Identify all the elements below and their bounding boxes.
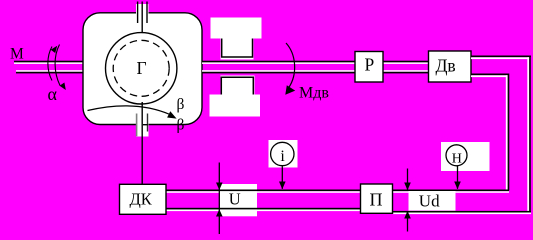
box Dv (motor) bbox=[429, 51, 472, 82]
bottom pivot slot bbox=[136, 118, 149, 137]
n sensor circle bbox=[446, 145, 467, 166]
brake stator bottom outline bbox=[221, 77, 253, 94]
wire: shaft from box P to box Dv bbox=[383, 61, 429, 74]
box P (reducer) bbox=[355, 52, 383, 83]
arrowhead U down bbox=[216, 183, 223, 191]
wire: shaft from gimbal to box P bbox=[202, 61, 355, 74]
i sensor circle bbox=[271, 142, 294, 165]
n arrow line bbox=[457, 166, 459, 189]
precession arc beta bbox=[88, 106, 171, 115]
wire: lower bus right of P box bbox=[393, 211, 532, 214]
svg-text:β: β bbox=[177, 116, 185, 133]
svg-text:Н: Н bbox=[452, 152, 462, 167]
gimbal frame (rounded rect) bbox=[83, 13, 202, 125]
Ud block white plate bbox=[409, 191, 456, 211]
arrowhead n bbox=[454, 182, 461, 190]
i arrow line bbox=[281, 166, 283, 189]
svg-text:Г: Г bbox=[137, 58, 147, 78]
wire: input shaft left segment bbox=[14, 61, 83, 74]
arrowhead beta bbox=[167, 111, 177, 118]
svg-text:U: U bbox=[229, 190, 241, 209]
svg-text:Р: Р bbox=[365, 55, 375, 75]
arrowhead i bbox=[279, 182, 286, 190]
arrowhead alpha bottom bbox=[60, 83, 66, 91]
top pivot slot (white gap in frame edge) bbox=[136, 4, 149, 22]
U block white plate bbox=[220, 184, 258, 216]
wire: lower bus DK to P box bbox=[166, 208, 360, 211]
rotation arrow alpha (arcs over input shaft) bbox=[48, 45, 60, 86]
top pivot bearing lines bbox=[138, 2, 147, 34]
svg-text:α: α bbox=[48, 84, 58, 104]
n sensor white plate bbox=[441, 142, 490, 171]
arrowhead alpha top bbox=[51, 46, 58, 53]
bottom pivot bearing lines bbox=[137, 102, 148, 185]
box P (amplifier Pi) bbox=[361, 184, 393, 213]
rotor inner dashed circle bbox=[113, 40, 169, 96]
arrowhead Mdv bbox=[285, 85, 295, 95]
svg-text:β: β bbox=[177, 96, 185, 113]
wire: Dv upper output to right edge then down bbox=[471, 56, 531, 213]
svg-text:Ud: Ud bbox=[419, 192, 440, 211]
svg-text:Дв: Дв bbox=[436, 56, 456, 76]
Ud arrow line bottom bbox=[407, 212, 409, 232]
brake stator top outline bbox=[222, 39, 253, 58]
svg-text:ДК: ДК bbox=[130, 190, 153, 209]
brake stator bottom piece bbox=[210, 76, 261, 117]
U input arrow line bbox=[218, 163, 220, 235]
box DK (angle sensor) bbox=[120, 184, 167, 214]
arrowhead Ud up bbox=[404, 211, 411, 219]
wires across U plate bbox=[220, 190, 258, 192]
rotor outer circle bbox=[106, 33, 177, 104]
arrowhead U up bbox=[216, 209, 223, 216]
Ud input arrow line top bbox=[407, 169, 409, 190]
svg-text:i: i bbox=[280, 148, 285, 165]
svg-text:Мдв: Мдв bbox=[299, 85, 329, 102]
svg-text:П: П bbox=[370, 189, 383, 209]
i sensor white plate bbox=[269, 140, 298, 168]
arrowhead Ud down bbox=[404, 183, 411, 191]
wire: upper feedback bus DK to P box bbox=[166, 190, 509, 193]
brake stator top piece bbox=[211, 18, 262, 60]
svg-text:М: М bbox=[10, 45, 24, 62]
rotation arrow Mdv (arc over shaft) bbox=[286, 43, 295, 88]
wire: Dv lower output right then down to bus bbox=[471, 74, 509, 191]
